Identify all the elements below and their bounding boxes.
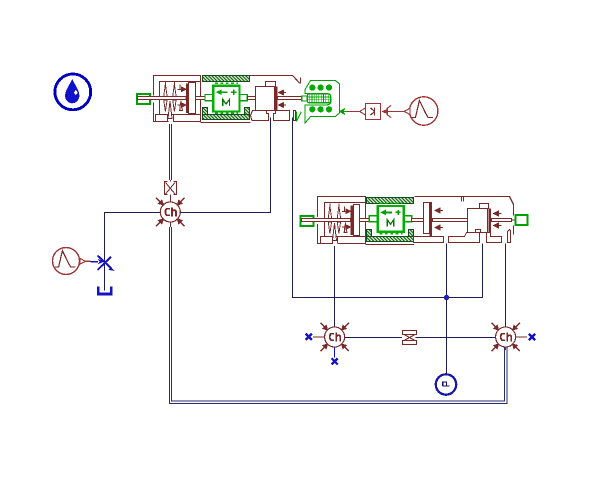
valve V1 hatch bottom (U channel)	[203, 108, 250, 120]
gain block K	[360, 104, 391, 120]
valve V1 spool bottom wall right	[274, 111, 290, 121]
valve V1 spool arrows	[279, 90, 286, 107]
valve V2 green port right	[516, 215, 528, 225]
wire bus (double) Ch1 bottom to Ch4 bottom	[169, 227, 507, 404]
valve V1 port C right wall	[294, 111, 296, 121]
valve V2 torque motor M box	[369, 203, 411, 233]
wire W4 Ch1 left to variable orifice, down through X to tank	[105, 213, 161, 291]
wire W7 Ch3 right to orifice to Ch4 left	[344, 337, 495, 339]
valve V2 rod 2	[433, 219, 468, 222]
chamber Ch4 right stub	[516, 336, 528, 338]
valve V2 pilot piston	[350, 206, 353, 235]
signal line coil to K	[348, 111, 360, 113]
valve V2 bottom walls	[414, 230, 511, 243]
valve V1 spool piston	[275, 87, 278, 111]
valve V1 spring 1	[164, 82, 167, 112]
valve V2 piston1 arrows	[435, 208, 443, 230]
valve V1 pilot arrows	[178, 85, 186, 111]
valve V2 hatch bottom (U channel)	[367, 230, 414, 242]
chamber Ch3 bottom stub	[334, 347, 336, 358]
chamber Ch4 (bottom-right)	[491, 323, 519, 351]
valve V1 torque motor M box	[205, 83, 247, 113]
valve V2 flapper cone	[333, 223, 337, 241]
valve V1 bottom boundary under hatch	[201, 122, 251, 124]
valve V1 green port left	[137, 94, 150, 104]
coil input arrow (green)	[340, 109, 348, 115]
valve V2 green port left	[301, 216, 314, 226]
valve V2 pilot arrows	[342, 207, 350, 233]
signal source S1	[404, 97, 438, 125]
valve V1 spool bottom wall left	[251, 111, 269, 121]
valve V1 hatch top	[203, 76, 250, 82]
valve V2 middle chamber	[468, 209, 488, 233]
signal source S2	[53, 248, 86, 275]
valve V2 piston 1	[424, 203, 430, 234]
valve V2 pilot body	[318, 197, 366, 244]
valve V2 rod left	[302, 219, 351, 222]
valve V1 pilot body	[154, 76, 201, 122]
valve V1 spool chamber	[256, 87, 275, 111]
valve V1 spool section outline	[250, 76, 301, 84]
orifice R1 (vertical)	[165, 180, 177, 202]
junction node	[444, 295, 450, 301]
plug x right of Ch4	[529, 334, 535, 340]
valve V2 piston 2	[488, 209, 491, 233]
tank T1	[98, 286, 111, 294]
valve V2 small lower cone	[344, 223, 347, 233]
wire W1 valve1 portA to orifice (double)	[169, 124, 171, 181]
pressure sensor P	[436, 374, 456, 394]
valve V2 rod middle	[412, 219, 424, 222]
valve V1 rod pilot to M tab	[196, 97, 206, 100]
chamber Ch1	[156, 198, 184, 226]
chamber Ch3 (bottom-left)	[320, 323, 348, 351]
valve V2 chamber foot	[476, 230, 481, 233]
signal line K to source	[388, 111, 404, 113]
valve V1 drain triangle	[297, 112, 302, 122]
valve V2 rod right	[492, 219, 512, 222]
chamber Ch3 left stub	[313, 336, 325, 338]
signal line S2 to X	[85, 260, 90, 262]
wire W3 valve1 portC down, right, up to valve2 port3	[293, 118, 483, 298]
variable orifice X (blue)	[91, 256, 115, 272]
wire W6 valve2 port2 down to P sensor	[446, 244, 448, 375]
valve V1 small lower cone	[180, 101, 183, 111]
valve V1 pilot bottom wall blocks	[156, 115, 168, 122]
valve V2 pilot bottom wall blocks	[321, 237, 333, 244]
valve V2 spring 1	[328, 204, 331, 234]
wire W9 valve2 port4 to Ch4 top	[505, 244, 507, 328]
valve V2 hatch top	[367, 198, 414, 204]
valve V2 piston2 arrows	[494, 211, 502, 228]
valve V1 rod middle	[248, 97, 256, 100]
valve V2 rod pilot to M tab	[360, 219, 370, 222]
valve V2 body outline right	[415, 197, 514, 235]
valve V2 bottom boundary under hatch	[366, 244, 415, 246]
orifice R2 (horizontal)	[403, 331, 417, 345]
valve V2 spring 2	[337, 204, 340, 234]
valve V1 rod to coil	[278, 97, 303, 100]
valve V1 coil connector	[302, 81, 348, 123]
plug x below Ch3	[332, 358, 338, 364]
chamber Ch1 bottom stub	[169, 222, 171, 227]
valve V1 flapper cone	[168, 101, 172, 119]
valve V1 rod left	[138, 97, 187, 100]
plug x left of Ch3	[306, 334, 312, 340]
wire W5 valve2 port1 to Ch3 top	[334, 245, 336, 327]
wire W2 valve1 portB to Ch1 right	[180, 118, 270, 213]
fluid properties icon	[55, 74, 91, 110]
valve V1 spring 2	[173, 82, 176, 112]
chamber Ch4 bottom stub	[505, 347, 507, 350]
valve V1 pilot piston	[186, 84, 189, 113]
